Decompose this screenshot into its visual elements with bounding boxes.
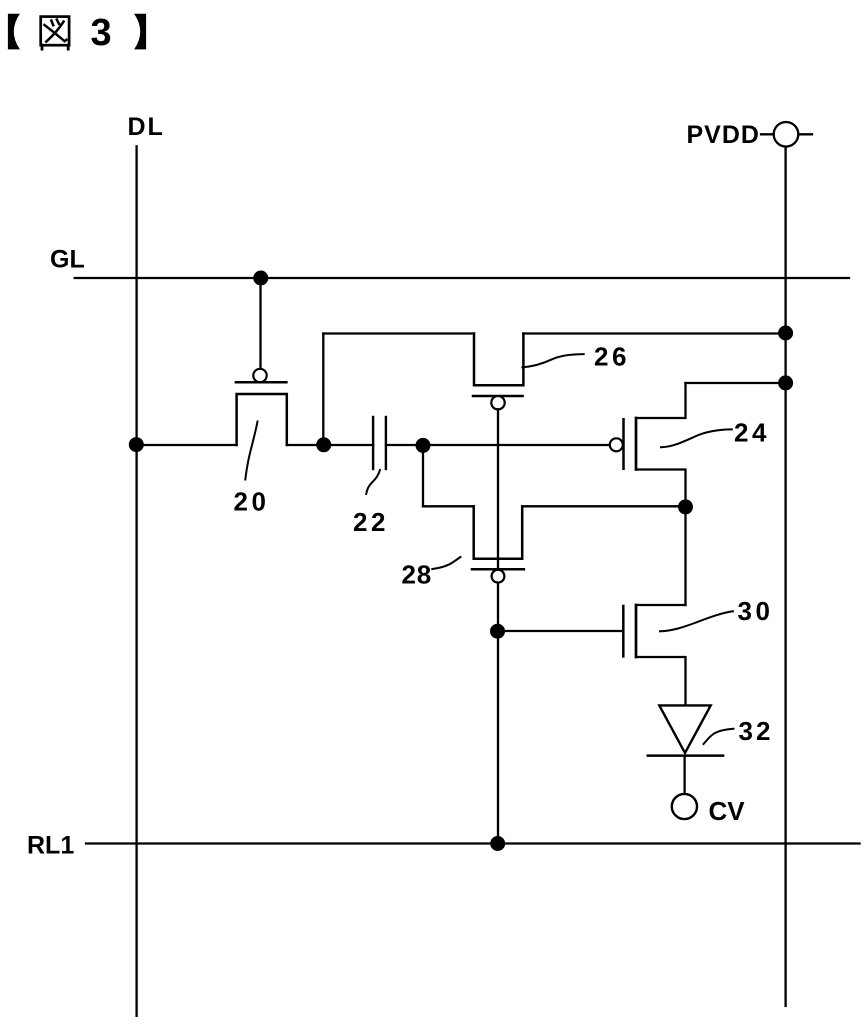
- leader line 30: [660, 611, 733, 631]
- svg-text:24: 24: [734, 418, 770, 448]
- wire node E to Q30 gate: [498, 630, 622, 632]
- leader line 22: [366, 470, 380, 494]
- title figure 3 kanji zu box: [41, 17, 69, 50]
- wire node B to capacitor 22: [323, 444, 373, 446]
- wire node D to transistor 30: [684, 506, 686, 605]
- wire Q30 drain top: [636, 604, 686, 606]
- wire PVDD vertical supply line: [784, 147, 786, 1006]
- wire main row left from DL: [137, 444, 237, 446]
- terminal PVDD circle: [774, 122, 799, 147]
- wire PVDD terminal stub: [761, 133, 812, 135]
- wire to transistor 28: [423, 505, 474, 507]
- wire Q28 gate down to node E: [497, 583, 499, 844]
- transistor Q26 gate bar: [473, 395, 523, 398]
- wire DL vertical data line: [135, 146, 137, 1016]
- transistor Q28 gate bar: [472, 568, 524, 571]
- transistor Q24 gate bar: [622, 419, 625, 469]
- svg-text:20: 20: [234, 487, 270, 517]
- wire top row to transistor 26: [323, 332, 474, 334]
- leader line 28: [432, 557, 460, 569]
- junction dot PVDD Q24 row: [778, 375, 793, 390]
- transistor Q28 channel: [474, 506, 523, 558]
- transistor Q28 gate bubble: [492, 570, 505, 583]
- wire Q26 gate down to Q28 gate: [497, 409, 499, 569]
- capacitor C22 right plate: [385, 417, 387, 469]
- transistor Q30 channel: [635, 605, 638, 657]
- junction dot node B: [316, 437, 331, 452]
- transistor Q26 channel: [474, 334, 523, 386]
- capacitor C22 left plate: [372, 417, 374, 469]
- svg-text:3: 3: [91, 12, 112, 54]
- wire RL1 horizontal line: [86, 842, 860, 844]
- svg-text:32: 32: [739, 716, 774, 746]
- junction dot node D: [678, 499, 693, 514]
- wire Q20 to node B: [287, 444, 324, 446]
- transistor Q20 gate bar: [236, 381, 287, 384]
- leader line 26: [522, 354, 583, 367]
- svg-text:30: 30: [738, 596, 774, 626]
- wire Q24 drain top: [636, 383, 686, 418]
- wire capacitor to node C: [386, 444, 423, 446]
- wire diode to CV terminal: [683, 756, 685, 794]
- wire node B up to transistor 26: [322, 334, 324, 446]
- leader line 32: [704, 729, 734, 744]
- svg-text:RL1: RL1: [27, 832, 74, 860]
- junction dot GL node: [253, 271, 268, 286]
- title bracket right: [134, 14, 146, 50]
- svg-text:DL: DL: [128, 113, 165, 141]
- junction dot PVDD top row: [778, 326, 793, 341]
- junction dot DL main row: [129, 437, 144, 452]
- diode D32 triangle: [659, 705, 710, 753]
- wire GL horizontal gate line: [75, 277, 849, 279]
- leader line 24: [661, 429, 732, 447]
- terminal CV circle: [672, 794, 697, 819]
- transistor Q20 channel: [237, 394, 287, 445]
- junction dot node E: [490, 624, 505, 639]
- wire Q24 source bottom to node D: [636, 470, 686, 507]
- title kanji zu inner strokes: [45, 20, 67, 42]
- svg-text:22: 22: [353, 507, 389, 537]
- svg-text:GL: GL: [50, 246, 85, 274]
- junction dot RL1 node: [490, 836, 505, 851]
- svg-text:26: 26: [594, 342, 630, 372]
- transistor Q20 gate bubble: [253, 369, 266, 382]
- wire transistor 28 to node D: [522, 505, 685, 507]
- leader line 20: [245, 422, 257, 480]
- wire transistor 26 to PVDD line: [523, 332, 785, 334]
- wire node C to transistor 24 gate: [423, 444, 610, 446]
- wire GL to transistor 20 gate: [259, 278, 261, 369]
- svg-text:CV: CV: [709, 796, 746, 826]
- transistor Q24 channel: [635, 418, 638, 470]
- title figure 3 bracket left: [8, 14, 20, 50]
- transistor Q24 gate bubble: [610, 438, 623, 451]
- junction dot node C: [416, 438, 431, 453]
- svg-text:28: 28: [402, 560, 433, 590]
- wire node C down: [422, 445, 424, 506]
- svg-text:PVDD: PVDD: [687, 121, 760, 149]
- wire Q24 top to PVDD line: [686, 382, 786, 384]
- diode D32 cathode bar: [648, 754, 723, 757]
- wire Q30 source bottom: [636, 657, 686, 705]
- transistor Q26 gate bubble: [491, 396, 504, 409]
- transistor Q30 gate bar: [622, 606, 625, 656]
